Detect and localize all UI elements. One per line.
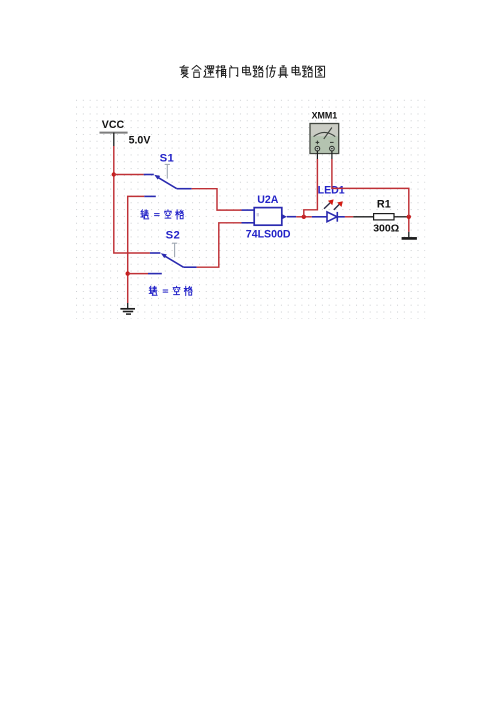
wire VCC rail junction down to S2 and across [114, 175, 150, 254]
switch S2 [148, 243, 197, 273]
svg-text:VCC: VCC [102, 119, 125, 131]
wire red stub into S1 pole [114, 174, 144, 176]
node A junction (gate output / XMM1 +) [302, 215, 306, 219]
svg-text:U2A: U2A [257, 194, 279, 206]
multimeter XMM1 [310, 124, 339, 154]
node B junction (R1 / XMM1 - / ground) [407, 215, 411, 219]
resistor R1 [353, 214, 409, 220]
switch S1 [144, 164, 192, 196]
wire U2A output to LED1 anode [296, 216, 312, 218]
svg-text:S1: S1 [160, 153, 175, 165]
wire S1 output to U2A pin 1 [192, 189, 242, 210]
junction node at VCC rail / S1 [112, 172, 116, 176]
wire S1 lower throw to ground rail [128, 196, 145, 303]
LED LED1 [312, 199, 345, 221]
wire S2 lower throw stub [128, 273, 148, 275]
wire LED1 cathode to R1 [345, 216, 353, 218]
svg-text:300Ω: 300Ω [373, 223, 399, 235]
svg-text:XMM1: XMM1 [312, 110, 338, 120]
title 复合逻辑门电路仿真电路图 [180, 65, 325, 77]
wire XMM1 - terminal to node B [332, 151, 409, 217]
svg-text:R1: R1 [377, 199, 391, 211]
wire node B down to ground [408, 217, 410, 232]
ground GND2 [402, 232, 417, 239]
ground GND1 [120, 303, 135, 314]
power source VCC [100, 119, 128, 146]
wire XMM1 + terminal to node A [304, 151, 318, 217]
svg-text:5.0V: 5.0V [129, 134, 151, 146]
wire VCC down to S1 junction [113, 146, 115, 175]
key label 键 = 空格 (S2) [149, 286, 192, 295]
key label 键 = 空格 (S1) [141, 210, 184, 219]
svg-text:S2: S2 [166, 230, 181, 242]
wire S2 output to U2A pin 2 [197, 223, 242, 267]
svg-text:74LS00D: 74LS00D [246, 229, 291, 241]
junction node ground rail / S2 throw [126, 271, 130, 275]
NAND gate U2A (74LS00D) [242, 208, 297, 226]
